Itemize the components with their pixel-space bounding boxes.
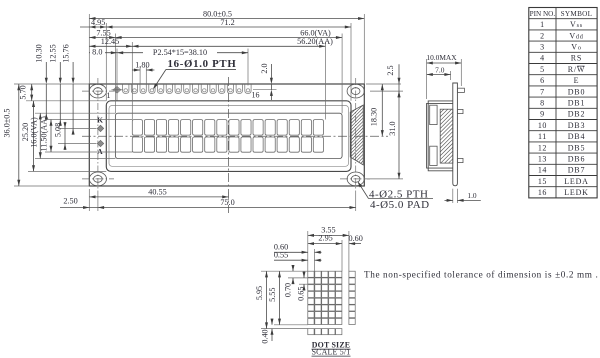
svg-text:1: 1 [540, 20, 545, 29]
callout 4-O2.5 PTH / 4-O5.0 PAD [358, 181, 433, 211]
dimension 0.65 dot height [297, 272, 306, 301]
dimension 5.70 bezel top offset [18, 84, 33, 101]
svg-text:0.70: 0.70 [283, 283, 292, 297]
svg-text:RS: RS [571, 54, 582, 63]
svg-text:12: 12 [538, 143, 547, 152]
svg-text:0.40: 0.40 [261, 329, 270, 343]
svg-text:10.0MAX: 10.0MAX [426, 53, 457, 62]
dimension 11.50(AA) height [40, 116, 53, 152]
display horizontal centerline [82, 135, 388, 137]
svg-text:16.0(VA): 16.0(VA) [29, 117, 38, 148]
svg-text:4: 4 [540, 54, 545, 63]
svg-text:DB4: DB4 [568, 132, 586, 141]
svg-text:2.50: 2.50 [63, 196, 77, 205]
dimension 3.55 character pitch [308, 225, 349, 237]
svg-text:2: 2 [540, 31, 545, 40]
dimension 2.95 character width [308, 234, 342, 245]
backlight terminal A label [97, 147, 103, 156]
dimension 5.08 K-A spacing [53, 122, 66, 150]
svg-text:12.45: 12.45 [101, 37, 119, 46]
dimension 10.0MAX side depth [426, 53, 461, 99]
svg-text:Vo: Vo [571, 43, 581, 52]
svg-text:16: 16 [252, 91, 260, 100]
svg-text:2.95: 2.95 [318, 234, 332, 243]
svg-text:56.20(AA): 56.20(AA) [297, 37, 333, 46]
svg-text:13: 13 [538, 155, 547, 164]
cursor row [308, 329, 342, 335]
mounting holes 4x (pad O5.0, hole O2.5) [89, 84, 364, 186]
backlight terminal K pad [97, 125, 104, 132]
svg-text:DB7: DB7 [568, 166, 586, 175]
svg-text:1.0: 1.0 [467, 191, 477, 200]
svg-text:PIN NO.: PIN NO. [530, 10, 556, 18]
svg-text:5.95: 5.95 [255, 286, 264, 300]
svg-text:31.0: 31.0 [388, 121, 397, 135]
dimension 0.60 column gap right [349, 234, 363, 245]
dimension 16.0(VA) height [29, 113, 42, 158]
pin 16 number label [252, 91, 260, 100]
dimension 4.95 bezel offset [80, 18, 106, 29]
tolerance note [364, 269, 598, 279]
side view LCD glass hatched [440, 96, 453, 175]
svg-text:DB3: DB3 [568, 121, 586, 130]
vertical centerline through left mounting holes [97, 78, 99, 192]
side view pin header tab [457, 88, 464, 92]
adjacent character first column [349, 271, 355, 324]
dimension 8.0 pin1 offset [89, 48, 117, 57]
svg-text:DB5: DB5 [568, 143, 586, 152]
side view bezel tab lower [457, 158, 463, 162]
dimension 80.0+-0.5 overall width [89, 9, 364, 20]
svg-text:DB1: DB1 [568, 99, 586, 108]
dimension 31.0 hole vertical spacing [364, 91, 403, 179]
dimension 0.60 dot pitch [274, 243, 322, 254]
dimension 66.0(VA) viewing area width [115, 28, 342, 39]
dimension 2.50 hole offset [60, 196, 98, 209]
svg-text:15: 15 [538, 177, 547, 186]
svg-text:40.55: 40.55 [148, 188, 166, 197]
svg-text:LEDA: LEDA [564, 177, 589, 186]
svg-text:E: E [574, 76, 580, 85]
svg-text:16-Ø1.0 PTH: 16-Ø1.0 PTH [168, 58, 237, 70]
svg-text:2.0: 2.0 [260, 63, 269, 73]
svg-text:10.30: 10.30 [35, 44, 44, 62]
LCD module PCB outline (front view 80x36) [89, 84, 364, 186]
dimension 18.30 centerline from top edge [369, 84, 383, 136]
dimension 7.0 bezel to board [427, 65, 451, 80]
dimension 75.0 hole spacing [98, 198, 356, 209]
backlight terminal A pad [97, 140, 104, 147]
svg-text:2.5: 2.5 [386, 65, 395, 75]
callout 16-O1.0 PTH [153, 58, 236, 90]
svg-text:0.60: 0.60 [349, 234, 363, 243]
svg-text:4-Ø5.0 PAD: 4-Ø5.0 PAD [370, 199, 430, 211]
svg-text:SYMBOL: SYMBOL [561, 10, 593, 18]
dimension 2.0 pin row from top edge [253, 63, 277, 100]
svg-text:8: 8 [540, 99, 545, 108]
svg-text:66.0(VA): 66.0(VA) [300, 28, 331, 37]
svg-text:75.0: 75.0 [220, 198, 234, 207]
svg-text:0.65: 0.65 [297, 287, 306, 301]
dimension 12.45 AA offset [89, 37, 132, 48]
svg-text:14: 14 [538, 166, 547, 175]
extension lines above main view [89, 14, 364, 120]
dimension 0.55 dot width [274, 251, 322, 262]
dimension 5.95 row height to cursor [255, 271, 268, 328]
svg-text:16: 16 [538, 188, 547, 197]
svg-text:10: 10 [538, 121, 547, 130]
dimension P2.54*15=38.10 pin pitch [117, 48, 248, 57]
svg-text:DB6: DB6 [568, 155, 586, 164]
svg-text:1: 1 [107, 91, 111, 100]
svg-text:DB0: DB0 [568, 87, 586, 96]
svg-text:P2.54*15=38.10: P2.54*15=38.10 [153, 48, 207, 57]
dot detail extension lines [261, 231, 349, 329]
dimension 12.55 AA top from edge [49, 44, 62, 125]
svg-text:DB2: DB2 [568, 110, 586, 119]
hatched zebra connector area at right of bezel [290, 102, 425, 168]
pin header pads 1-16 with holes (16-O1.0 PTH) [112, 84, 252, 100]
display vertical centerline [227, 77, 229, 213]
viewing area opening (66.0 VA) [115, 113, 342, 158]
side view bezel clip upper [430, 105, 437, 124]
svg-text:LEDK: LEDK [564, 188, 589, 197]
svg-text:11: 11 [538, 132, 547, 141]
dimension 36.0+-0.5 overall height [3, 84, 21, 186]
pin 1 number label [107, 91, 111, 100]
dot matrix 5x8 grid [308, 271, 342, 324]
vertical centerline through right mounting holes [355, 78, 357, 192]
16x2 character cells (active area) [132, 120, 323, 153]
dimension 0.40 cursor gap [261, 319, 274, 344]
dimension 0.70 dot pitch vertical [283, 265, 294, 297]
extension lines left of main view [14, 84, 132, 186]
svg-text:8.0: 8.0 [92, 48, 102, 57]
side view bezel frame [427, 101, 453, 171]
svg-text:K: K [97, 115, 103, 124]
svg-text:36.0±0.5: 36.0±0.5 [3, 108, 12, 137]
metal bezel outer frame [106, 101, 351, 172]
dimension 15.76 K hole from edge [62, 44, 75, 134]
svg-text:5: 5 [540, 65, 545, 74]
svg-text:71.2: 71.2 [220, 18, 234, 27]
dimension 56.20(AA) active area width [132, 37, 333, 48]
svg-text:The non-specified tolerance of: The non-specified tolerance of dimension… [364, 269, 598, 279]
svg-text:Vdd: Vdd [569, 31, 583, 40]
dimension 1.0 board thickness [445, 189, 481, 203]
svg-text:4.95: 4.95 [91, 18, 105, 27]
svg-text:6: 6 [540, 76, 545, 85]
svg-text:5.55: 5.55 [268, 288, 277, 302]
svg-text:3: 3 [540, 43, 545, 52]
backlight terminal K label [97, 115, 103, 124]
svg-text:7.0: 7.0 [435, 65, 445, 74]
dimension 10.30 VA top from edge [35, 44, 48, 119]
svg-text:18.30: 18.30 [369, 108, 378, 126]
dimension 5.55 char height [268, 271, 281, 325]
svg-text:11.50(AA): 11.50(AA) [40, 116, 49, 152]
svg-text:1.80: 1.80 [135, 61, 149, 70]
svg-text:9: 9 [540, 110, 545, 119]
svg-text:0.55: 0.55 [274, 251, 288, 260]
horizontal centerlines of mounting holes [82, 91, 370, 179]
dimension 40.55 centerline from left edge [89, 188, 228, 199]
extension lines below main view [89, 189, 355, 211]
dimension 71.2 bezel width [106, 18, 351, 29]
dimension 1.80 pad width [132, 61, 154, 85]
dimension 2.5 top-right hole offset [366, 64, 403, 97]
dimension 7.55 VA offset [89, 28, 115, 39]
svg-text:7.55: 7.55 [96, 28, 110, 37]
svg-text:5.70: 5.70 [18, 85, 27, 99]
side view bezel tab upper [457, 109, 463, 113]
svg-text:15.76: 15.76 [62, 44, 71, 62]
svg-text:Vss: Vss [570, 20, 583, 29]
pin assignment table [529, 8, 597, 198]
svg-text:A: A [97, 147, 103, 156]
DOT SIZE title [312, 341, 351, 357]
bezel inner stamped line [109, 106, 349, 167]
dimension 25.20 bezel height [21, 101, 35, 172]
svg-text:12.55: 12.55 [49, 44, 58, 62]
side view bezel clip lower [430, 146, 437, 165]
svg-text:SCALE 5/1: SCALE 5/1 [312, 348, 351, 357]
side view PCB board [453, 83, 458, 186]
svg-text:7: 7 [540, 87, 545, 96]
